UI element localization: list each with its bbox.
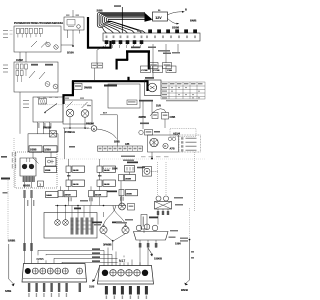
- dashed vline harness left: [13, 138, 15, 188]
- connector DIM: [145, 130, 153, 136]
- wires into N17 top: [108, 241, 140, 266]
- module box 3/98: [108, 84, 140, 108]
- svg-text:C/5B: C/5B: [170, 116, 176, 119]
- svg-text:N/5B: N/5B: [37, 257, 45, 261]
- dashed pin list box: [179, 135, 201, 152]
- wires bar into fusebank: [58, 206, 91, 220]
- label 34/8B: [112, 222, 122, 224]
- fuse box C202: [14, 58, 58, 92]
- ignition coil unit: [134, 224, 169, 248]
- micro codes above separator: [141, 156, 169, 157]
- svg-text:C170B: C170B: [141, 70, 148, 72]
- connector 2A/2B: [97, 166, 116, 172]
- coil labels: [169, 230, 179, 238]
- labels under table: [139, 100, 198, 102]
- connector 1/35A: [44, 146, 58, 152]
- wire lamps to junction: [63, 117, 89, 128]
- svg-text:31/5: 31/5: [156, 105, 161, 108]
- label 24/5B: [140, 123, 149, 125]
- pin code smudges below N17: [106, 296, 147, 300]
- connector C102B pair: [92, 63, 103, 68]
- svg-text:3W/5B: 3W/5B: [84, 86, 92, 90]
- bus wire row2: [46, 254, 112, 266]
- svg-text:12V: 12V: [155, 16, 162, 20]
- svg-text:2/100: 2/100: [67, 51, 74, 55]
- connector C172B: [153, 66, 163, 73]
- node junction instrument: [151, 158, 153, 160]
- node dots on bar: [57, 205, 105, 207]
- connector 3W/5B under bar: [74, 84, 82, 90]
- fuse 12V box: [153, 10, 168, 21]
- svg-text:24/14B: 24/14B: [95, 193, 102, 196]
- connector 2W/2D box: [125, 166, 135, 173]
- wire instrument drop: [151, 152, 153, 159]
- svg-text:1/35A: 1/35A: [44, 149, 51, 152]
- connector 24/4B: [46, 192, 59, 198]
- label 7/5B near strip: [137, 30, 143, 32]
- module box left of sensor: [119, 190, 135, 211]
- svg-text:2/5B: 2/5B: [97, 8, 103, 12]
- strip pin numbers: [106, 36, 196, 39]
- wire relay pins: [68, 10, 80, 46]
- wire motor pins to bus: [25, 251, 32, 264]
- svg-text:2B/2B: 2B/2B: [125, 178, 131, 180]
- label 24/4B r3: [107, 191, 117, 193]
- bus label strip C1-C9: [98, 146, 143, 151]
- connector I box: [38, 181, 44, 187]
- pins below N17: [105, 286, 148, 295]
- label 24/8B: [92, 222, 102, 224]
- svg-text:2A/3B: 2A/3B: [73, 169, 79, 172]
- svg-text:1590B: 1590B: [154, 257, 162, 261]
- wires lamps converge: [104, 212, 126, 241]
- tick labels on BN wire: [191, 251, 194, 259]
- wire hooks under strip pins: [105, 44, 141, 48]
- thick wire to fan: [146, 80, 148, 91]
- wire box2 drop: [19, 92, 21, 134]
- rotated harness text columns: [12, 152, 30, 169]
- dashed mechanical link: [38, 104, 90, 106]
- label BL/7: [69, 146, 75, 148]
- wire to B+ arrow: [168, 12, 183, 15]
- connector strip C1: [103, 33, 200, 41]
- svg-text:3W/50: 3W/50: [139, 115, 147, 119]
- arrowhead BN: [185, 280, 190, 284]
- sensor unit 19/TB: [155, 196, 172, 215]
- connector 2A/1B: [66, 180, 85, 186]
- strip terminals (top pins): [148, 29, 197, 33]
- bus labels: [92, 248, 100, 262]
- dashed wire right col a: [157, 162, 159, 196]
- svg-text:B: B: [185, 8, 187, 12]
- relay 2W/5B: [33, 97, 63, 122]
- wire relay pins down: [38, 122, 50, 134]
- dotted wire right BN: [189, 208, 191, 238]
- relay left wire-code rows: [23, 100, 29, 108]
- connector 2A/2B (r2): [97, 180, 116, 186]
- wire hop 31/5: [150, 109, 166, 116]
- pins below N/5B: [28, 283, 81, 292]
- wires grid to bar: [69, 196, 122, 206]
- connector 2A/3B: [66, 166, 85, 172]
- pump unit: [143, 167, 152, 177]
- svg-text:1590: 1590: [175, 242, 181, 246]
- pin sleeves motor: [23, 190, 34, 206]
- dashed wire right col b: [165, 162, 167, 196]
- icon box C281: [46, 158, 57, 167]
- svg-text:2S/86: 2S/86: [172, 26, 180, 30]
- wire curve to lamp left: [104, 206, 116, 227]
- svg-text:3/W8B: 3/W8B: [103, 243, 112, 247]
- connector N17 label: [118, 257, 129, 262]
- svg-text:S/58B: S/58B: [8, 239, 15, 243]
- label C25B: [131, 47, 140, 49]
- dotted harness separator: [58, 158, 205, 160]
- svg-text:2/9B: 2/9B: [114, 140, 120, 144]
- svg-text:24/14B: 24/14B: [65, 193, 72, 196]
- connector N17 body: [98, 266, 154, 285]
- svg-text:N17: N17: [119, 259, 125, 263]
- wire crossing feed x122: [121, 7, 123, 33]
- node junction relay pin 73,46: [72, 45, 74, 47]
- wire arc from node A: [97, 129, 117, 139]
- label above crossing feed: [114, 5, 121, 7]
- label 15/4B left edge: [1, 178, 10, 180]
- node lamp junction: [112, 240, 114, 242]
- wire curve to lamp right: [113, 206, 126, 227]
- svg-text:C/B: C/B: [125, 143, 130, 146]
- pin code smudges below N/5B: [28, 293, 67, 297]
- label B/8 fusebank: [74, 208, 81, 210]
- svg-text:2V891A: 2V891A: [65, 130, 76, 134]
- label 31/54B: [104, 85, 117, 87]
- labels GN/BGR BN/9B: [121, 156, 135, 162]
- svg-text:1/35B: 1/35B: [30, 149, 37, 152]
- fan motor module 8/45: [145, 77, 162, 96]
- dashed wire right col c: [194, 152, 196, 212]
- thick wire C25B bar: [116, 52, 151, 70]
- thick wire ignition feed: [127, 77, 129, 82]
- wire box1 to box2: [20, 52, 26, 62]
- wire drops from strip right: [153, 44, 178, 78]
- svg-text:C18H: C18H: [167, 70, 173, 72]
- label 2W/2D: [127, 162, 138, 164]
- wire dashes to node A: [85, 128, 91, 130]
- connector N/5B label: [36, 255, 49, 260]
- wire drops from table: [143, 102, 165, 130]
- connector 1/3B: [149, 63, 158, 69]
- wire coil pins to N17: [140, 248, 148, 266]
- thick feed wire 30-circuit: [88, 17, 111, 48]
- wire coil feed: [144, 215, 158, 234]
- wire pump dash: [152, 170, 159, 172]
- instrument unit box: [148, 135, 179, 152]
- labels near strip drops: [148, 47, 171, 55]
- svg-text:POWERDISTRIBUTION/BKSB103A: POWERDISTRIBUTION/BKSB103A: [14, 21, 64, 25]
- dashed bracket A31/4: [170, 129, 196, 137]
- left margin wire-code text rows: [3, 30, 13, 38]
- connector C/5B right: [162, 113, 169, 120]
- inter-row marks: [67, 175, 102, 177]
- antenna node A: [91, 126, 97, 132]
- connector N/5B body: [22, 264, 87, 283]
- harness bus convergence tip: [145, 13, 152, 22]
- svg-text:2A/1B: 2A/1B: [73, 183, 79, 186]
- labels above lamps: [94, 222, 127, 226]
- svg-text:A7B: A7B: [170, 148, 175, 151]
- lamp MB right: [122, 225, 129, 234]
- svg-text:6/9SB: 6/9SB: [23, 184, 30, 188]
- wire pin code smudges: [38, 123, 51, 128]
- node circle small: [139, 130, 143, 134]
- wires connecting connector rows: [61, 159, 130, 191]
- wire motor pins down: [25, 198, 32, 243]
- bus wire row3: [54, 258, 120, 266]
- connector 24/14B (r3 left): [58, 191, 77, 197]
- svg-text:2B/4: 2B/4: [112, 167, 118, 171]
- label C2/4: [137, 167, 145, 169]
- pin sleeves motor wires: [23, 243, 32, 251]
- junction bar top of fusebank: [55, 205, 126, 207]
- svg-text:2A/2B: 2A/2B: [104, 169, 110, 172]
- svg-text:P/53M: P/53M: [86, 122, 95, 126]
- connector 1/8H: [163, 63, 172, 69]
- pin code smudges under grid: [68, 197, 124, 202]
- wire to 2S/86 arrow: [168, 19, 177, 24]
- wire 31/7: [100, 115, 117, 146]
- svg-text:31/5: 31/5: [89, 285, 95, 289]
- left margin wire-code rows (C202): [3, 65, 8, 73]
- wire below 1/35: [33, 152, 51, 163]
- washer motor unit: [15, 152, 57, 188]
- svg-text:BN/B: BN/B: [190, 19, 196, 23]
- relay thin box right: [141, 215, 147, 230]
- svg-text:2B/2D: 2B/2D: [126, 193, 132, 195]
- wire strip left drop: [95, 46, 105, 80]
- label 19/TB: [174, 197, 183, 206]
- arrow 15902: [148, 248, 152, 254]
- svg-text:BN/B: BN/B: [181, 288, 188, 292]
- wire BN down: [189, 240, 191, 281]
- relay 2/32 (top): [64, 17, 84, 30]
- lamp cluster 2V891A box: [63, 98, 92, 125]
- thick wire main bar 15-circuit: [72, 80, 148, 82]
- wire dashes left of 2B/4: [103, 167, 111, 169]
- connector 24/14B (r3 mid): [89, 191, 108, 197]
- ground wire S/5B: [9, 244, 14, 284]
- relay pin numbers: [66, 15, 79, 16]
- labels at BN junction: [180, 238, 188, 242]
- svg-text:A: A: [93, 127, 95, 131]
- connector 2B/2B mid: [119, 175, 136, 181]
- connector 2B/2D (r3 right): [119, 190, 138, 196]
- svg-text:C202: C202: [16, 58, 23, 62]
- svg-text:24/4B: 24/4B: [46, 194, 52, 197]
- wire lamp drop long: [64, 128, 66, 159]
- svg-text:C: C: [164, 144, 166, 148]
- svg-text:S/5B: S/5B: [5, 289, 11, 293]
- connector 2/9SB: [44, 167, 57, 173]
- connector 1/35B: [29, 146, 42, 152]
- connector C18H: [166, 66, 176, 73]
- fusebank unit box: [44, 213, 97, 239]
- left harness dashed line: [7, 178, 9, 242]
- ground arrow mid 31/5: [94, 267, 100, 282]
- harness bus (nested wires): [97, 12, 145, 33]
- connector C170B: [141, 66, 151, 73]
- switch position table: [161, 82, 205, 99]
- ground arrowhead: [12, 283, 15, 286]
- label 2/4: [80, 200, 88, 202]
- bus wire row1: [38, 250, 104, 266]
- wire box1 to relay: [61, 44, 73, 46]
- fuse box 11/1 (top-left): [14, 26, 61, 52]
- label harness left: [3, 192, 8, 194]
- svg-text:2/9SB: 2/9SB: [45, 170, 51, 172]
- svg-text:C172B: C172B: [153, 70, 160, 72]
- node BN junction: [189, 239, 191, 241]
- labels under module: [125, 219, 133, 221]
- svg-text:2A/2B: 2A/2B: [104, 183, 110, 186]
- junction box 1/35: [28, 131, 58, 152]
- bus wire row4: [62, 262, 128, 266]
- strip terminals (bottom pins): [105, 40, 144, 44]
- svg-text:2W/5B: 2W/5B: [43, 126, 51, 130]
- lamp MB left: [100, 225, 107, 234]
- label A7F: [154, 131, 160, 133]
- thick wire stair to relay: [64, 81, 73, 105]
- label 6/46: [1, 156, 7, 158]
